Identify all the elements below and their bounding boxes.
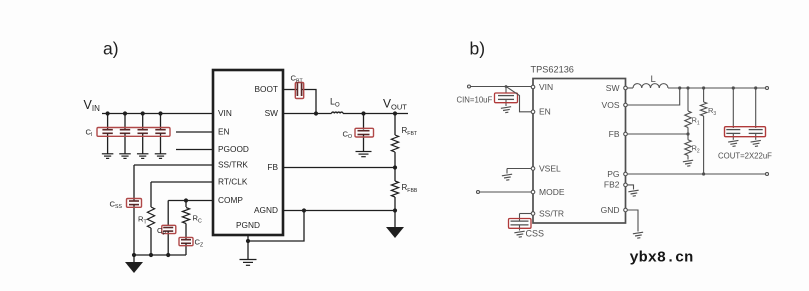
svg-text:SW: SW: [606, 83, 620, 93]
svg-text:VIN: VIN: [218, 108, 232, 118]
svg-text:SS/TRK: SS/TRK: [218, 160, 248, 170]
svg-text:FB: FB: [267, 162, 278, 172]
svg-text:SS/TR: SS/TR: [539, 208, 564, 218]
svg-text:VOS: VOS: [602, 100, 620, 110]
svg-text:COUT=2X22uF: COUT=2X22uF: [718, 152, 772, 161]
svg-text:CIN=10uF: CIN=10uF: [457, 96, 493, 105]
svg-text:EN: EN: [218, 127, 230, 137]
svg-text:CSS: CSS: [526, 229, 545, 239]
svg-text:SW: SW: [265, 108, 279, 118]
svg-text:ybx8.cn: ybx8.cn: [630, 249, 694, 267]
svg-text:PG: PG: [607, 169, 619, 179]
svg-text:b): b): [470, 39, 486, 59]
svg-text:BOOT: BOOT: [254, 84, 278, 94]
svg-text:AGND: AGND: [254, 205, 278, 215]
svg-text:TPS62136: TPS62136: [531, 65, 574, 75]
svg-text:L: L: [651, 74, 656, 85]
svg-text:MODE: MODE: [539, 187, 565, 197]
svg-text:RT/CLK: RT/CLK: [218, 177, 248, 187]
svg-text:GND: GND: [601, 205, 620, 215]
svg-text:VIN: VIN: [539, 82, 553, 92]
svg-text:FB: FB: [609, 129, 620, 139]
svg-text:VSEL: VSEL: [539, 163, 561, 173]
svg-text:COMP: COMP: [218, 195, 243, 205]
svg-text:EN: EN: [539, 107, 551, 117]
svg-text:a): a): [103, 39, 119, 59]
svg-text:PGND: PGND: [236, 220, 260, 230]
svg-text:FB2: FB2: [604, 180, 620, 190]
svg-text:PGOOD: PGOOD: [218, 144, 249, 154]
